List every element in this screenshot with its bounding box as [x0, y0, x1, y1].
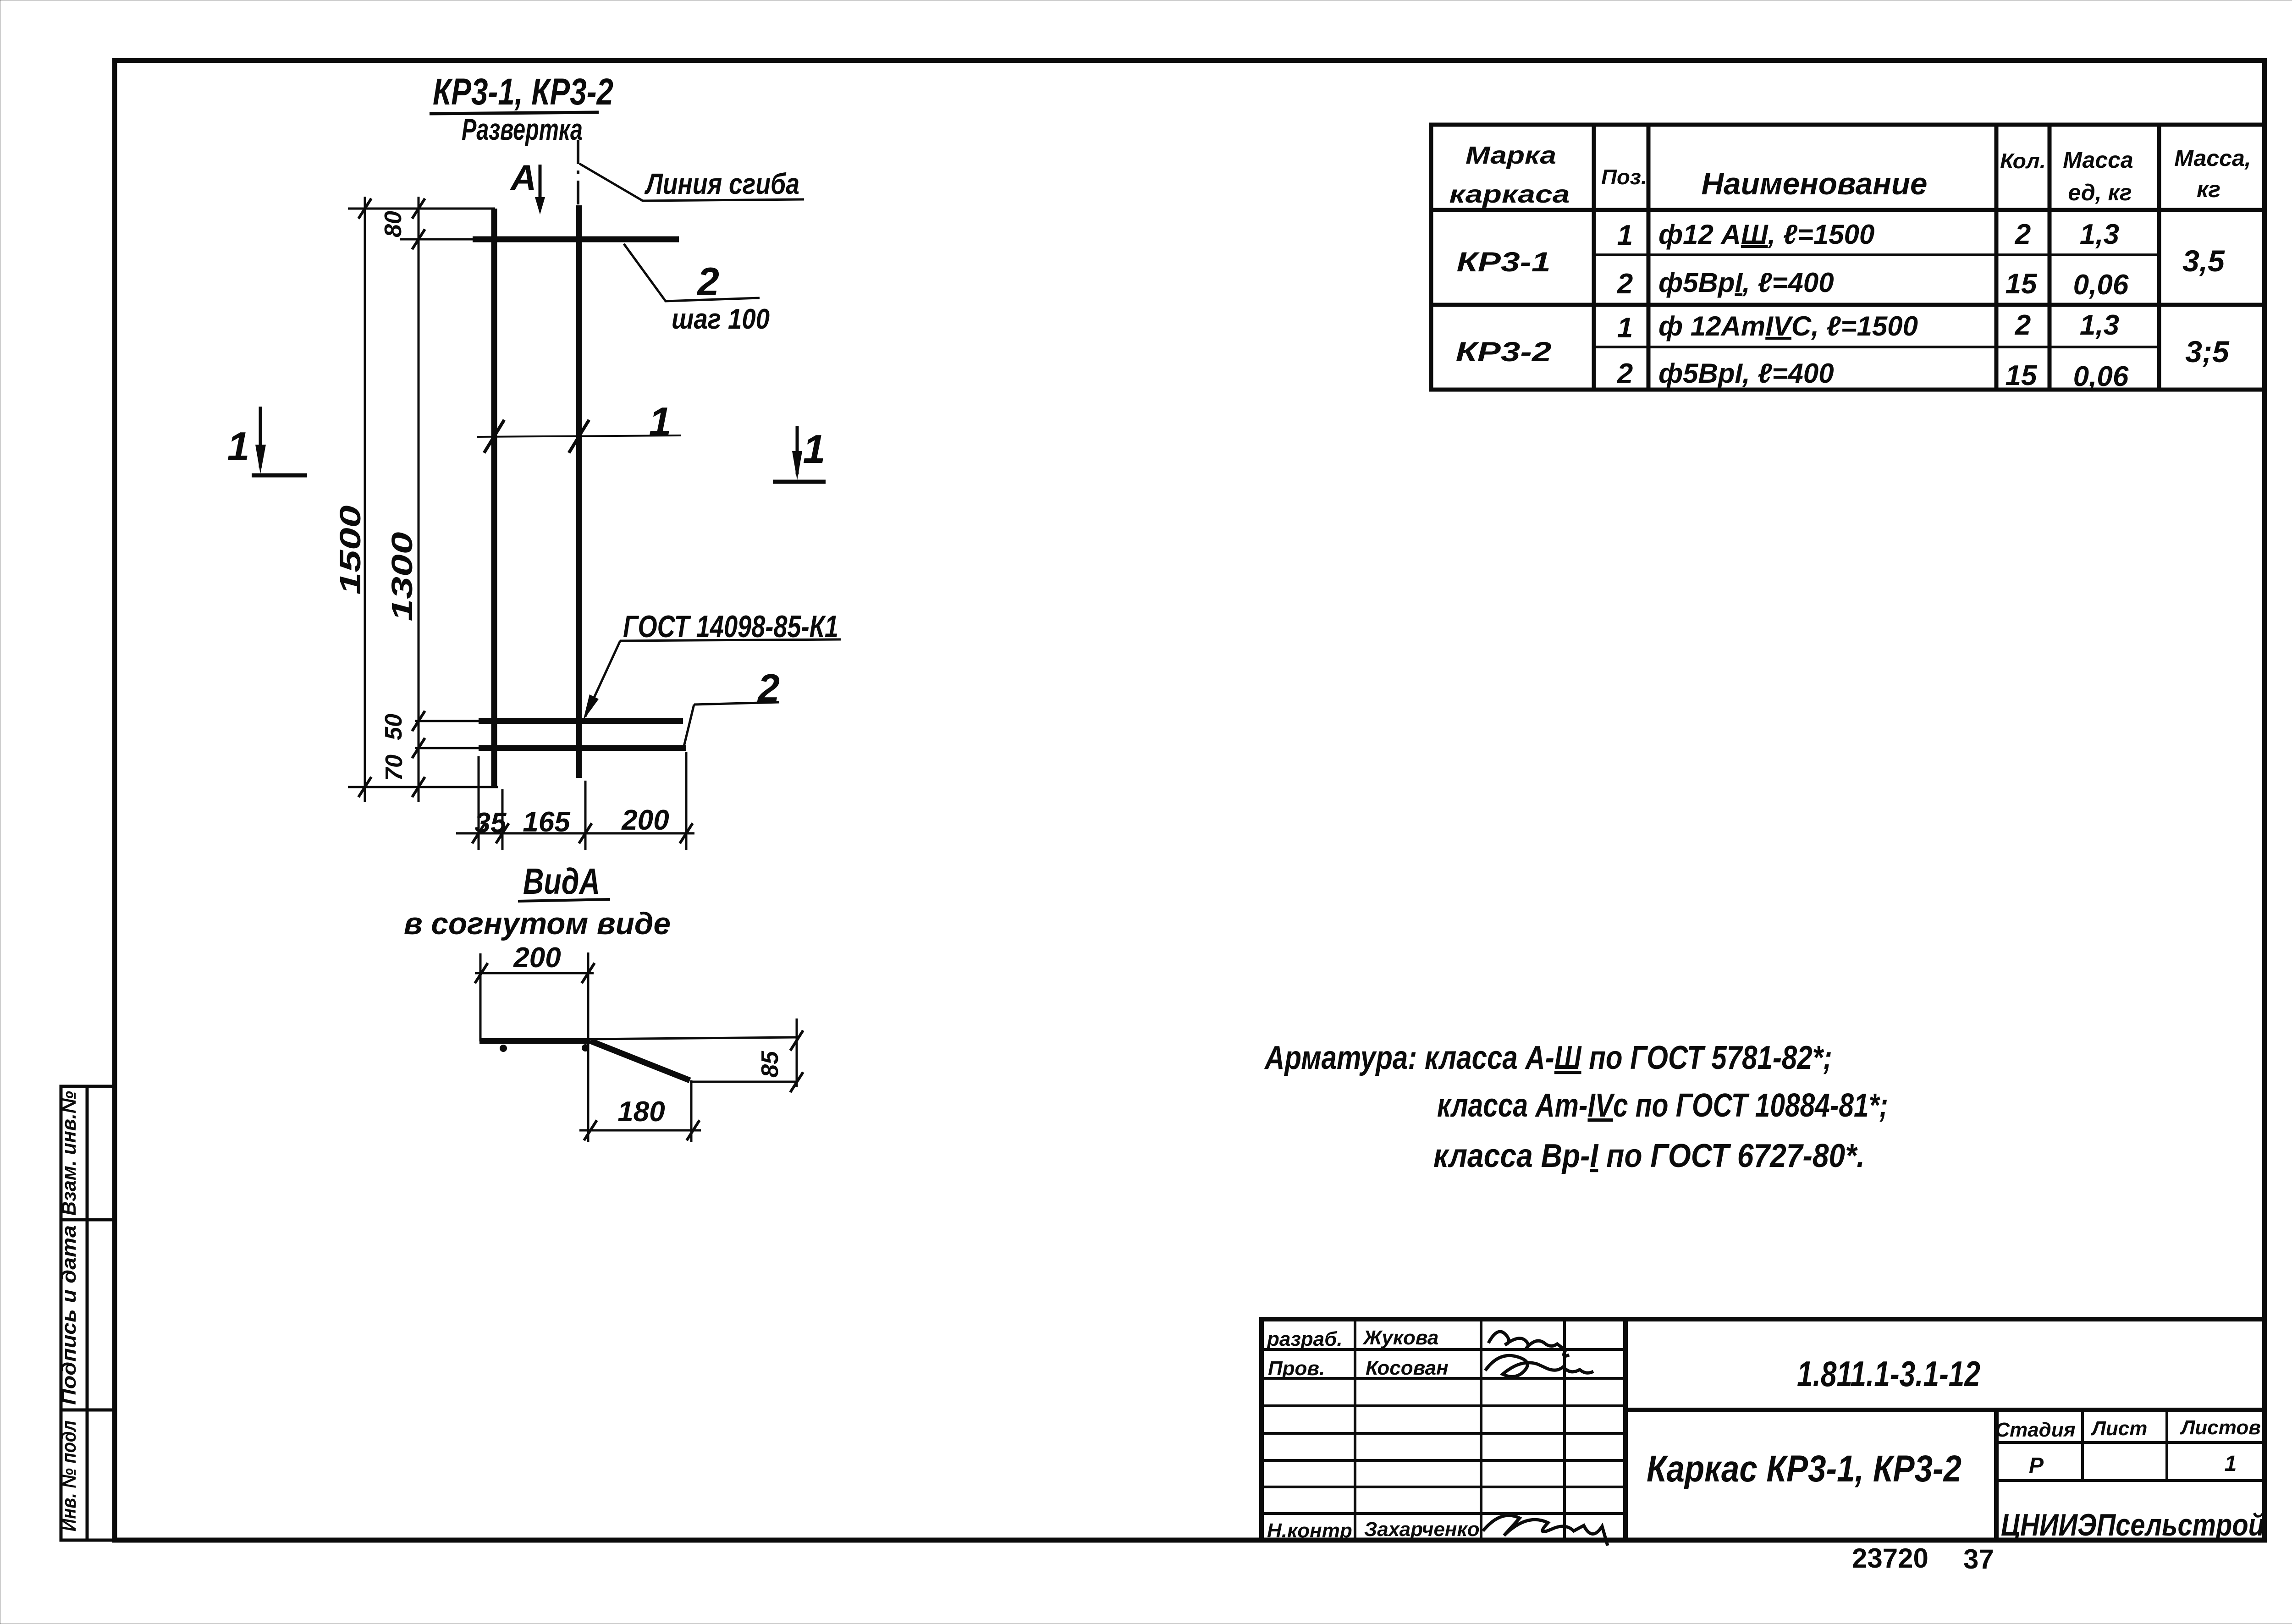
svg-text:1: 1 [227, 424, 250, 469]
svg-text:80: 80 [380, 211, 407, 237]
svg-text:КР3-2: КР3-2 [1456, 336, 1552, 367]
svg-text:3;5: 3;5 [2185, 335, 2230, 369]
svg-text:85: 85 [757, 1051, 783, 1078]
svg-text:Масса,: Масса, [2174, 145, 2251, 171]
svg-text:Подпись и дата: Подпись и дата [58, 1225, 80, 1405]
svg-text:каркаса: каркаса [1449, 181, 1570, 208]
svg-text:2: 2 [1617, 358, 1633, 390]
svg-text:КР3-1: КР3-1 [1457, 247, 1551, 277]
svg-text:Арматура: класса А-Ш по ГОСТ 5: Арматура: класса А-Ш по ГОСТ 5781-82*; [1264, 1040, 1832, 1076]
svg-text:1: 1 [803, 426, 826, 472]
svg-text:Масса: Масса [2063, 147, 2133, 173]
svg-text:Линия сгиба: Линия сгиба [645, 167, 799, 200]
svg-text:Лист: Лист [2091, 1417, 2148, 1440]
svg-text:Листов: Листов [2180, 1416, 2261, 1439]
svg-text:0,06: 0,06 [2073, 269, 2129, 301]
svg-text:2: 2 [1617, 268, 1633, 300]
svg-text:1,3: 1,3 [2080, 219, 2119, 250]
svg-text:Инв. № подл: Инв. № подл [58, 1420, 80, 1531]
svg-text:1: 1 [2225, 1452, 2237, 1476]
svg-text:ЦНИИЭПсельстрой: ЦНИИЭПсельстрой [2001, 1508, 2264, 1542]
svg-text:в согнутом виде: в согнутом виде [404, 906, 671, 941]
svg-text:200: 200 [513, 942, 561, 974]
svg-text:200: 200 [621, 804, 669, 836]
svg-text:2: 2 [2015, 219, 2031, 250]
svg-text:Н.контр: Н.контр [1267, 1519, 1352, 1542]
svg-text:Р: Р [2029, 1453, 2044, 1478]
svg-text:Взам. инв.№: Взам. инв.№ [58, 1091, 80, 1216]
svg-text:35: 35 [475, 807, 507, 839]
svg-text:1500: 1500 [334, 506, 367, 595]
svg-text:разраб.: разраб. [1267, 1328, 1343, 1350]
svg-text:15: 15 [2005, 268, 2038, 300]
svg-text:1: 1 [649, 399, 672, 444]
svg-text:1.811.1-3.1-12: 1.811.1-3.1-12 [1797, 1354, 1980, 1394]
svg-text:1: 1 [1617, 220, 1633, 251]
svg-text:ед, кг: ед, кг [2068, 180, 2132, 205]
svg-text:Стадия: Стадия [1995, 1419, 2075, 1441]
svg-text:50: 50 [380, 714, 407, 740]
svg-text:Каркас КР3-1, КР3-2: Каркас КР3-1, КР3-2 [1647, 1448, 1961, 1490]
svg-text:класса Вр-I по ГОСТ 6727-80*.: класса Вр-I по ГОСТ 6727-80*. [1433, 1138, 1865, 1174]
svg-text:1,3: 1,3 [2080, 309, 2119, 341]
svg-text:Развертка: Развертка [462, 112, 583, 146]
svg-text:А: А [510, 157, 536, 198]
svg-text:ф5ВрI, ℓ=400: ф5ВрI, ℓ=400 [1658, 358, 1834, 389]
svg-text:1: 1 [1617, 312, 1633, 344]
svg-text:70: 70 [381, 754, 408, 781]
svg-text:2: 2 [696, 260, 719, 304]
svg-text:23720: 23720 [1852, 1543, 1928, 1574]
svg-text:15: 15 [2005, 360, 2038, 391]
svg-text:37: 37 [1963, 1544, 1994, 1574]
svg-text:Наименование: Наименование [1702, 166, 1928, 201]
svg-text:кг: кг [2197, 176, 2220, 202]
svg-text:ф5ВрI, ℓ=400: ф5ВрI, ℓ=400 [1658, 267, 1834, 298]
svg-text:ф12 АШ, ℓ=1500: ф12 АШ, ℓ=1500 [1658, 219, 1874, 250]
svg-text:шаг 100: шаг 100 [672, 303, 770, 335]
svg-text:165: 165 [523, 806, 571, 838]
svg-text:Жукова: Жукова [1362, 1327, 1438, 1349]
svg-text:Захарченко: Захарченко [1364, 1518, 1480, 1541]
svg-text:Кол.: Кол. [2000, 149, 2046, 173]
svg-text:0,06: 0,06 [2073, 361, 2129, 392]
svg-text:2: 2 [2015, 309, 2031, 341]
svg-text:1300: 1300 [386, 532, 419, 622]
svg-text:Марка: Марка [1466, 142, 1556, 169]
svg-text:Поз.: Поз. [1601, 165, 1647, 189]
svg-text:180: 180 [617, 1096, 665, 1128]
svg-text:ф 12АтIVС, ℓ=1500: ф 12АтIVС, ℓ=1500 [1658, 311, 1918, 341]
svg-text:Косован: Косован [1366, 1357, 1449, 1379]
svg-text:КР3-1, КР3-2: КР3-1, КР3-2 [433, 71, 613, 113]
svg-text:класса Ат-IVс по ГОСТ 10884-81: класса Ат-IVс по ГОСТ 10884-81*; [1437, 1087, 1888, 1124]
svg-text:Пров.: Пров. [1268, 1357, 1325, 1380]
svg-text:ВидА: ВидА [523, 861, 600, 902]
svg-text:3,5: 3,5 [2182, 244, 2225, 278]
